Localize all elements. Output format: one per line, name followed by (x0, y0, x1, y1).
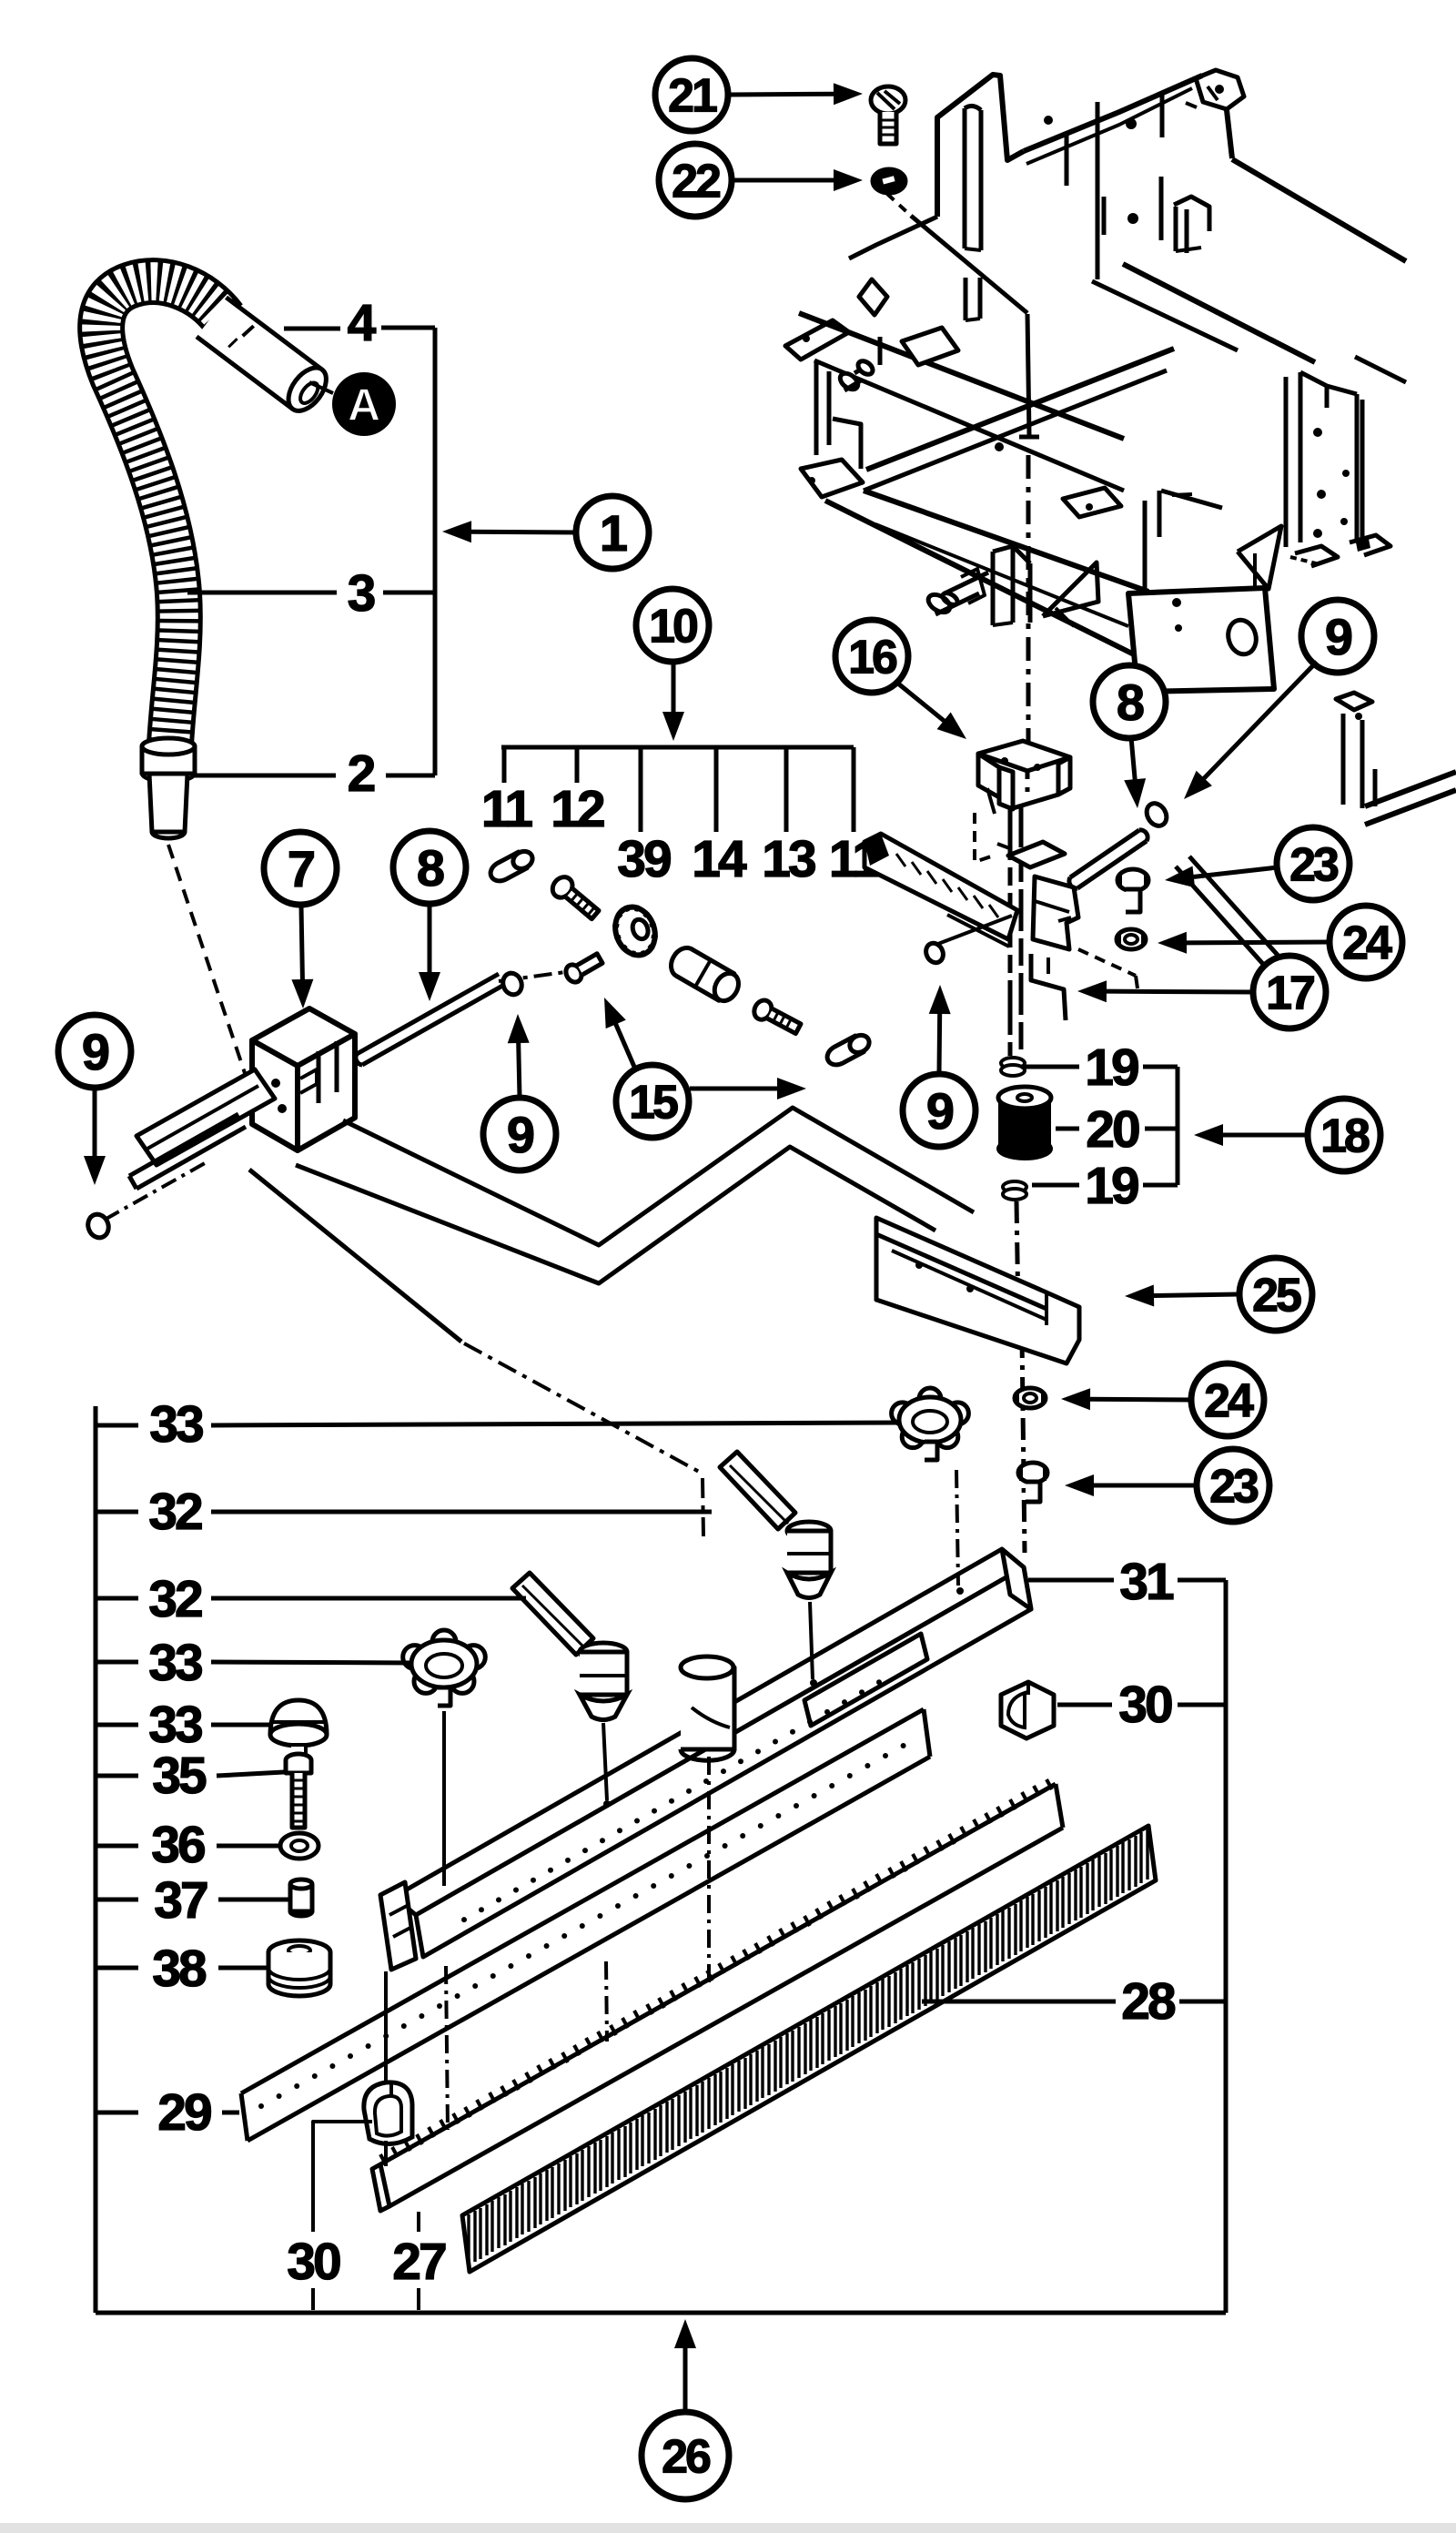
bottom bracket line (96, 2311, 1226, 2315)
view label A (filled circle) (332, 372, 396, 436)
bolt 21 landing line (1027, 314, 1029, 435)
arrow 23 lower (1092, 1484, 1197, 1488)
callout circle 8 (right) (1093, 665, 1166, 738)
svg-text:8: 8 (417, 839, 444, 897)
bolt item 23 lower (1018, 1463, 1047, 1483)
arrow 24 lower (1088, 1397, 1191, 1403)
rail item 31 (394, 1549, 1024, 1915)
hidden edge below bracket 16 (975, 813, 994, 862)
screw item 13 (751, 998, 803, 1038)
callout circle 7 (264, 832, 337, 905)
alignment axis line (nut 22 down through parts to rail 31) (887, 194, 911, 216)
clamp lever item 32 (A) (512, 1573, 593, 1655)
callout circle 25 (1239, 1258, 1312, 1331)
arrow 10 (672, 664, 676, 714)
callout circle 1 (576, 496, 649, 569)
svg-text:39: 39 (617, 830, 671, 888)
gear item 39 (605, 898, 665, 965)
arrow 8 left (428, 906, 432, 974)
drop line star knob B (956, 1470, 958, 1586)
callout circle 23 upper (1277, 827, 1350, 900)
drop line lever B (810, 1602, 813, 1679)
spacer cylinder on rail (681, 1667, 734, 1749)
svg-text:28: 28 (1121, 1972, 1175, 2031)
ring item 9 (mid) (500, 970, 524, 997)
pivot block (1008, 842, 1065, 867)
svg-text:19: 19 (1085, 1157, 1138, 1215)
nut item 11b (824, 1031, 873, 1069)
label 38 + lines (96, 1966, 138, 1971)
right bracket vertical (1224, 1580, 1228, 2313)
svg-text:13: 13 (762, 830, 815, 888)
callout circle 23 lower (1197, 1449, 1269, 1522)
label 29 + lines (96, 2111, 138, 2115)
nut item 24 upper (1117, 929, 1146, 949)
arrow 9 top-right (1203, 662, 1317, 779)
flexible hose item 1 (101, 281, 224, 763)
slide block item 7 (252, 1008, 355, 1066)
rack item 27 (372, 2164, 389, 2211)
label 31 + lines (1028, 1578, 1114, 1583)
mount plate under block (136, 1069, 275, 1165)
bolt item 35 (286, 1754, 311, 1767)
label 30b + lines (1057, 1703, 1112, 1707)
svg-text:14: 14 (692, 830, 747, 888)
washer item 36 (280, 1833, 318, 1859)
rail 31 left end cap (380, 1882, 416, 1970)
drop line cylinder axis (707, 1757, 711, 1986)
label 37 + lines (96, 1898, 138, 1902)
bolt item 15a (563, 950, 605, 985)
svg-text:31: 31 (1119, 1553, 1174, 1611)
hidden dashed edge of bracket 17 (1078, 949, 1136, 976)
svg-text:9: 9 (1325, 608, 1352, 665)
left bracket vertical (94, 1406, 98, 2313)
callout circle 26 (642, 2412, 729, 2499)
callout circle 10 (636, 589, 709, 662)
leader from nozzle to A (309, 382, 333, 393)
arrow 16 (898, 684, 945, 722)
arrow 18 (1221, 1133, 1308, 1138)
hose end collar item 2/3 area (142, 746, 195, 774)
svg-text:35: 35 (152, 1747, 207, 1805)
callout circle 15 (616, 1065, 689, 1138)
label 36 + lines (96, 1844, 138, 1849)
label 33 second + lines (96, 1660, 138, 1665)
svg-text:33: 33 (149, 1395, 203, 1454)
callout circle 18 (1308, 1099, 1380, 1171)
zigzag plate lower edge (296, 1147, 935, 1283)
clamp lever item 32 (B) (720, 1452, 795, 1529)
clip item 30b (1001, 1682, 1054, 1738)
svg-text:15: 15 (629, 1076, 678, 1129)
svg-text:18: 18 (1320, 1109, 1370, 1162)
group 10 bracket (501, 745, 854, 750)
svg-text:32: 32 (148, 1483, 202, 1541)
arrow 7 (301, 907, 302, 981)
svg-text:33: 33 (148, 1634, 202, 1692)
svg-text:10: 10 (649, 600, 697, 653)
label 27 + lines (417, 2212, 420, 2232)
arrow 23 upper (1192, 867, 1278, 877)
label 33 third + lines (96, 1723, 138, 1728)
svg-text:38: 38 (152, 1940, 206, 1998)
dome knob item 33c (270, 1700, 327, 1735)
arrow 17 (1105, 989, 1253, 995)
nut 22 (873, 169, 905, 193)
hose end fitting (149, 774, 187, 832)
svg-text:22: 22 (672, 155, 720, 208)
bracket item 16 (978, 741, 1070, 771)
label 35 + lines (96, 1774, 138, 1778)
zigzag plate upper edge (343, 1108, 974, 1245)
label 30a + lines (313, 2122, 372, 2232)
threaded rod of item 18 stack (1008, 805, 1013, 1056)
svg-text:A: A (348, 380, 380, 431)
svg-text:7: 7 (288, 840, 314, 897)
pin item 8 right (1070, 830, 1139, 877)
washer item 19 upper (1001, 1058, 1025, 1069)
svg-text:16: 16 (848, 631, 897, 684)
ring item 9c (923, 940, 946, 966)
nut item 11a (487, 847, 536, 885)
axis from landing to bracket 16 (1026, 455, 1031, 754)
washer item 19 lower (1003, 1181, 1026, 1192)
svg-text:11: 11 (481, 780, 533, 838)
arrow 9 far-left (93, 1089, 97, 1158)
ruler item 29 (241, 1709, 924, 2093)
arrow 24 upper (1185, 940, 1330, 946)
svg-text:24: 24 (1342, 917, 1392, 969)
svg-text:32: 32 (148, 1570, 202, 1628)
arrow 9 mid (519, 1041, 520, 1097)
drop line lever A (606, 1961, 607, 2042)
slot in rail 31 (804, 1634, 927, 1726)
bolt item 23 upper (1117, 869, 1148, 891)
rod axis dash-dot (499, 970, 579, 981)
svg-text:36: 36 (151, 1816, 205, 1874)
drop line star knob A to rail (442, 1711, 446, 1886)
line rail to clamp 30a (384, 1971, 388, 2081)
arrow 15 right (690, 1087, 779, 1091)
scan edge strip (0, 2523, 1456, 2533)
svg-text:37: 37 (154, 1871, 207, 1930)
svg-text:30: 30 (1118, 1676, 1172, 1734)
callout circle 9 (right mid) (903, 1074, 976, 1147)
label 33 first + lines (96, 1424, 138, 1428)
screw item 12 (549, 873, 602, 923)
star knob item 33 (A) (403, 1630, 486, 1706)
svg-text:8: 8 (1117, 674, 1144, 731)
arrow 26 (683, 2346, 688, 2410)
svg-text:9: 9 (82, 1023, 109, 1080)
bracket 19-20-19 (1176, 1067, 1180, 1185)
channel item 25 (876, 1218, 1079, 1363)
callout circle 9 (top right) (1301, 600, 1374, 673)
cross wires at arm end (931, 916, 1012, 947)
arrow 15 up-left (615, 1023, 634, 1067)
dots on rail front face (461, 1917, 467, 1922)
svg-text:19: 19 (1085, 1039, 1138, 1097)
arrow 22 (733, 178, 835, 183)
ring item 9a (85, 1211, 112, 1241)
svg-text:30: 30 (287, 2233, 340, 2291)
callout circle 9 (far left) (58, 1015, 131, 1088)
dash-dot diagonal to cylinder (464, 1343, 701, 1473)
hose nozzle tip item 4 (197, 298, 334, 418)
svg-text:24: 24 (1204, 1374, 1254, 1427)
machine chassis frame (top right) (785, 70, 1456, 997)
svg-text:23: 23 (1289, 838, 1339, 891)
svg-text:21: 21 (668, 69, 717, 122)
long diagonal to bottom assembly (249, 1170, 461, 1342)
svg-text:29: 29 (157, 2083, 211, 2142)
svg-text:33: 33 (148, 1696, 202, 1754)
svg-text:12: 12 (551, 780, 604, 838)
clamp item 30a (364, 2082, 412, 2144)
arrow 25 (1152, 1294, 1239, 1296)
arrow 8 right (1131, 737, 1135, 781)
svg-text:20: 20 (1086, 1100, 1139, 1159)
callout circle 16 (835, 620, 908, 693)
pin item 37 (290, 1884, 312, 1911)
nut item 24 lower (1015, 1388, 1046, 1408)
svg-text:2: 2 (348, 745, 375, 803)
callout circle 21 (655, 58, 728, 131)
bracket lines for items 4-3-2 (284, 327, 340, 331)
svg-text:9: 9 (926, 1082, 954, 1140)
roller item 38 (268, 1940, 330, 1964)
callout circle 24 lower (1191, 1363, 1264, 1436)
svg-text:4: 4 (348, 294, 377, 352)
arrow 9 right-mid (937, 1012, 943, 1073)
arrow 1 (470, 530, 576, 535)
svg-text:25: 25 (1252, 1269, 1301, 1322)
callout circle 17 (1253, 956, 1326, 1028)
svg-text:3: 3 (348, 564, 375, 623)
star knob item 33 (B) (892, 1388, 969, 1460)
spacer item 14 (666, 943, 743, 1006)
rod item 8 (357, 974, 499, 1054)
svg-text:1: 1 (600, 504, 627, 562)
lower thin rail (129, 1114, 238, 1176)
svg-text:23: 23 (1209, 1460, 1259, 1513)
arrow 21 (730, 92, 835, 97)
rail 31 right end cap (1002, 1549, 1031, 1609)
bolt 21 (871, 86, 905, 114)
bracket item 17 (1033, 876, 1078, 949)
svg-text:17: 17 (1266, 967, 1314, 1019)
svg-text:26: 26 (662, 2430, 711, 2483)
label 28 + lines (922, 2000, 1116, 2004)
callout circle 22 (659, 144, 732, 217)
ring item 9b (1143, 800, 1170, 830)
callout circle 9 (mid) (483, 1098, 556, 1170)
brush strip item 28 (462, 1826, 1156, 2272)
roller item 20 (black) (998, 1098, 1051, 1149)
svg-text:9: 9 (507, 1106, 534, 1163)
dash-dot to ring 9a (105, 1163, 205, 1220)
label 32 second + lines (96, 1596, 138, 1601)
swivel arm (864, 834, 1017, 939)
dashed leader hose to block 7 (168, 845, 248, 1081)
svg-text:27: 27 (392, 2233, 446, 2291)
callout circle 24 upper (1330, 906, 1402, 978)
label 32 first + lines (96, 1510, 138, 1515)
callout circle 8 (left) (393, 831, 466, 904)
